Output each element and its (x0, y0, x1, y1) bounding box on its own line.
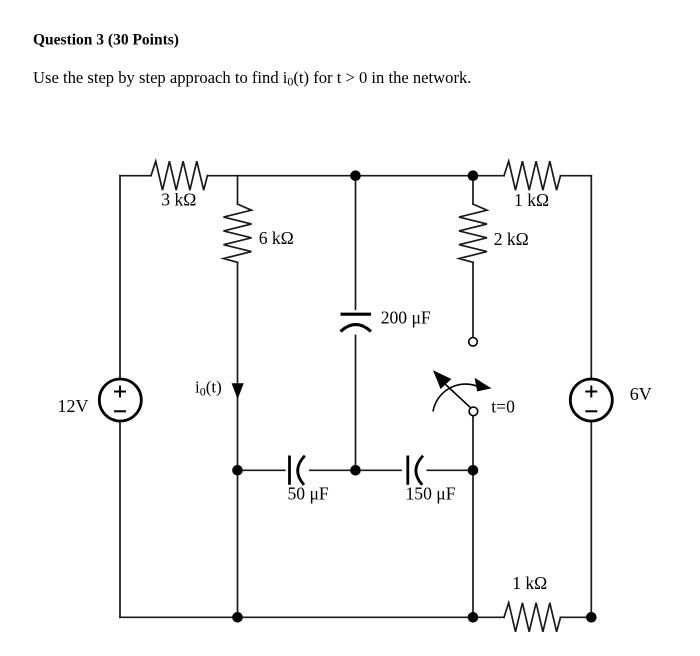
wire left vertical upper (119, 176, 121, 379)
resistor R 1k top zigzag (504, 161, 561, 190)
node C middle left junction dot (232, 465, 243, 476)
wire 6k branch top lead (237, 176, 239, 204)
switch S1 blade arrowhead (433, 370, 451, 389)
wire top-left horizontal segment (120, 175, 151, 177)
wire 2k branch top lead (472, 176, 474, 204)
switch S1 motion arc (433, 384, 478, 411)
wire middle right segment (427, 469, 473, 471)
node G bottom right junction dot (468, 612, 479, 623)
capacitor C 150uF right curved plate (416, 456, 423, 485)
voltage source V1 minus sign (114, 410, 126, 412)
svg-text:150 μF: 150 μF (406, 484, 456, 504)
wire center branch lower (355, 336, 357, 471)
svg-text:12V: 12V (58, 396, 89, 416)
wire 6k branch to bottom node (237, 470, 239, 617)
wire right vertical upper (590, 176, 592, 379)
svg-text:200 μF: 200 μF (381, 308, 431, 328)
svg-text:3 kΩ: 3 kΩ (161, 190, 196, 210)
wire middle between capacitors (310, 469, 401, 471)
wire top middle segment (207, 175, 355, 177)
svg-text:50 μF: 50 μF (288, 484, 329, 504)
capacitor C 150uF left straight plate (406, 456, 409, 485)
capacitor C 50uF left straight plate (288, 456, 291, 485)
wire top between node A and node B (356, 175, 474, 177)
node E middle right junction dot (468, 465, 479, 476)
resistor R 3k zigzag (151, 161, 207, 190)
switch S1 top terminal open circle (469, 338, 478, 347)
wire middle left segment (238, 469, 285, 471)
voltage source V2 plus sign (585, 386, 597, 398)
svg-text:6V: 6V (630, 384, 652, 404)
switch S1 blade line (445, 384, 471, 408)
wire switch bottom terminal down to bottom wire (472, 416, 474, 617)
svg-text:6 kΩ: 6 kΩ (259, 228, 294, 248)
wire center branch upper (355, 176, 357, 310)
node H bottom corner junction dot (586, 612, 597, 623)
capacitor C 200uF top plate (341, 313, 372, 316)
voltage source V1 12V circle (99, 379, 141, 421)
wire top right lead segment (473, 175, 504, 177)
current arrow i0(t) (232, 383, 244, 399)
capacitor C 200uF bottom curved plate (341, 325, 372, 332)
svg-text:1 kΩ: 1 kΩ (512, 573, 547, 593)
voltage source V2 6V circle (570, 379, 612, 421)
wire bottom-right corner segment (561, 616, 592, 618)
resistor R 2k zigzag (459, 204, 487, 262)
svg-text:t=0: t=0 (491, 396, 515, 416)
switch S1 arc arrowhead (475, 378, 492, 392)
svg-text:2 kΩ: 2 kΩ (494, 229, 529, 249)
capacitor C 50uF right curved plate (298, 456, 305, 485)
svg-text:i0(t): i0(t) (195, 378, 222, 399)
wire left vertical lower (119, 422, 121, 618)
resistor R 6k zigzag (224, 204, 252, 262)
svg-text:1 kΩ: 1 kΩ (514, 190, 549, 210)
svg-text:Question 3 (30 Points): Question 3 (30 Points) (33, 31, 179, 48)
voltage source V2 minus sign (585, 410, 597, 412)
resistor R 1k bottom zigzag (504, 603, 561, 632)
wire bottom long segment (120, 616, 504, 618)
wire right vertical lower (590, 422, 592, 618)
node A top center junction dot (350, 170, 361, 181)
wire 6k branch lower with i0 arrow (237, 262, 239, 470)
node D middle center junction dot (350, 465, 361, 476)
node F bottom left junction dot (232, 612, 243, 623)
svg-text:Use the step by step approach: Use the step by step approach to find i0… (33, 68, 471, 89)
wire 2k branch to switch top terminal (472, 262, 474, 337)
switch S1 bottom terminal open circle (469, 407, 478, 416)
wire top-right corner segment (561, 175, 592, 177)
node B top right junction dot (468, 170, 479, 181)
voltage source V1 plus sign (114, 386, 126, 398)
